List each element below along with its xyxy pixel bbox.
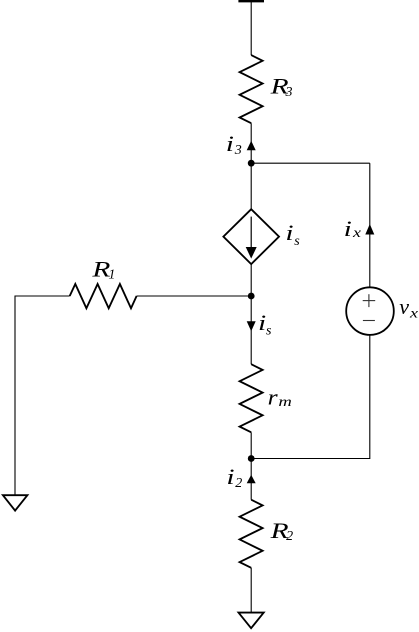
label vx [399,294,419,321]
svg-text:3: 3 [285,85,293,100]
supply rail bar [238,0,264,2]
wire rail to R3 [250,0,252,55]
wire R2 to ground [250,568,252,612]
wire right branch down to vx [369,163,371,287]
current arrow i2 [247,475,256,484]
resistor rm [240,364,263,432]
label R2 [269,518,293,544]
svg-text:v: v [399,294,409,319]
svg-text:i: i [344,216,352,241]
wire vx bottom to corner to node C [251,335,370,458]
label R1 [91,257,115,283]
current arrow ix [365,224,374,235]
svg-text:i: i [258,310,266,335]
wire node B down to rm [250,296,252,364]
label i3 [226,131,242,158]
node C (bottom) [248,455,255,462]
wire node A down to diamond [250,163,252,209]
svg-text:x: x [409,307,419,322]
svg-text:s: s [294,234,300,249]
svg-text:r: r [268,385,279,410]
wire node B to R1 [137,295,252,297]
wire R1 to left corner and down [15,296,70,495]
label R3 [269,74,292,100]
svg-text:i: i [285,220,293,245]
resistor R1 [70,284,137,308]
current arrow i3 [247,141,256,151]
svg-text:x: x [352,226,362,241]
minus sign [363,320,375,322]
wire rm to node C [250,432,252,458]
node A (top) [248,160,255,167]
arrow inside diamond [250,217,252,248]
current arrow is (down) [247,321,256,331]
svg-text:2: 2 [235,476,242,491]
label is (below node B) [258,310,272,339]
wire diamond to node B [250,264,252,296]
svg-text:s: s [266,324,272,339]
wire node C to R2 [250,459,252,500]
svg-text:1: 1 [108,267,115,282]
node B (middle) [248,293,255,300]
svg-text:i: i [226,131,234,156]
svg-text:3: 3 [234,143,242,158]
label rm [268,385,292,410]
svg-text:2: 2 [286,529,293,544]
wire node A to right corner [251,162,370,164]
dependent current source diamond [223,209,279,264]
svg-text:m: m [278,395,292,410]
label is (beside diamond) [285,220,300,249]
plus sign [363,294,376,307]
resistor R3 [240,55,263,123]
voltage source vx circle [346,287,394,335]
resistor R2 [240,500,263,568]
ground (bottom) [239,613,264,629]
ground (left) [3,495,28,510]
svg-text:i: i [226,464,234,489]
label ix [344,216,362,241]
wire R3 to node A [250,123,252,163]
label i2 [226,464,242,491]
